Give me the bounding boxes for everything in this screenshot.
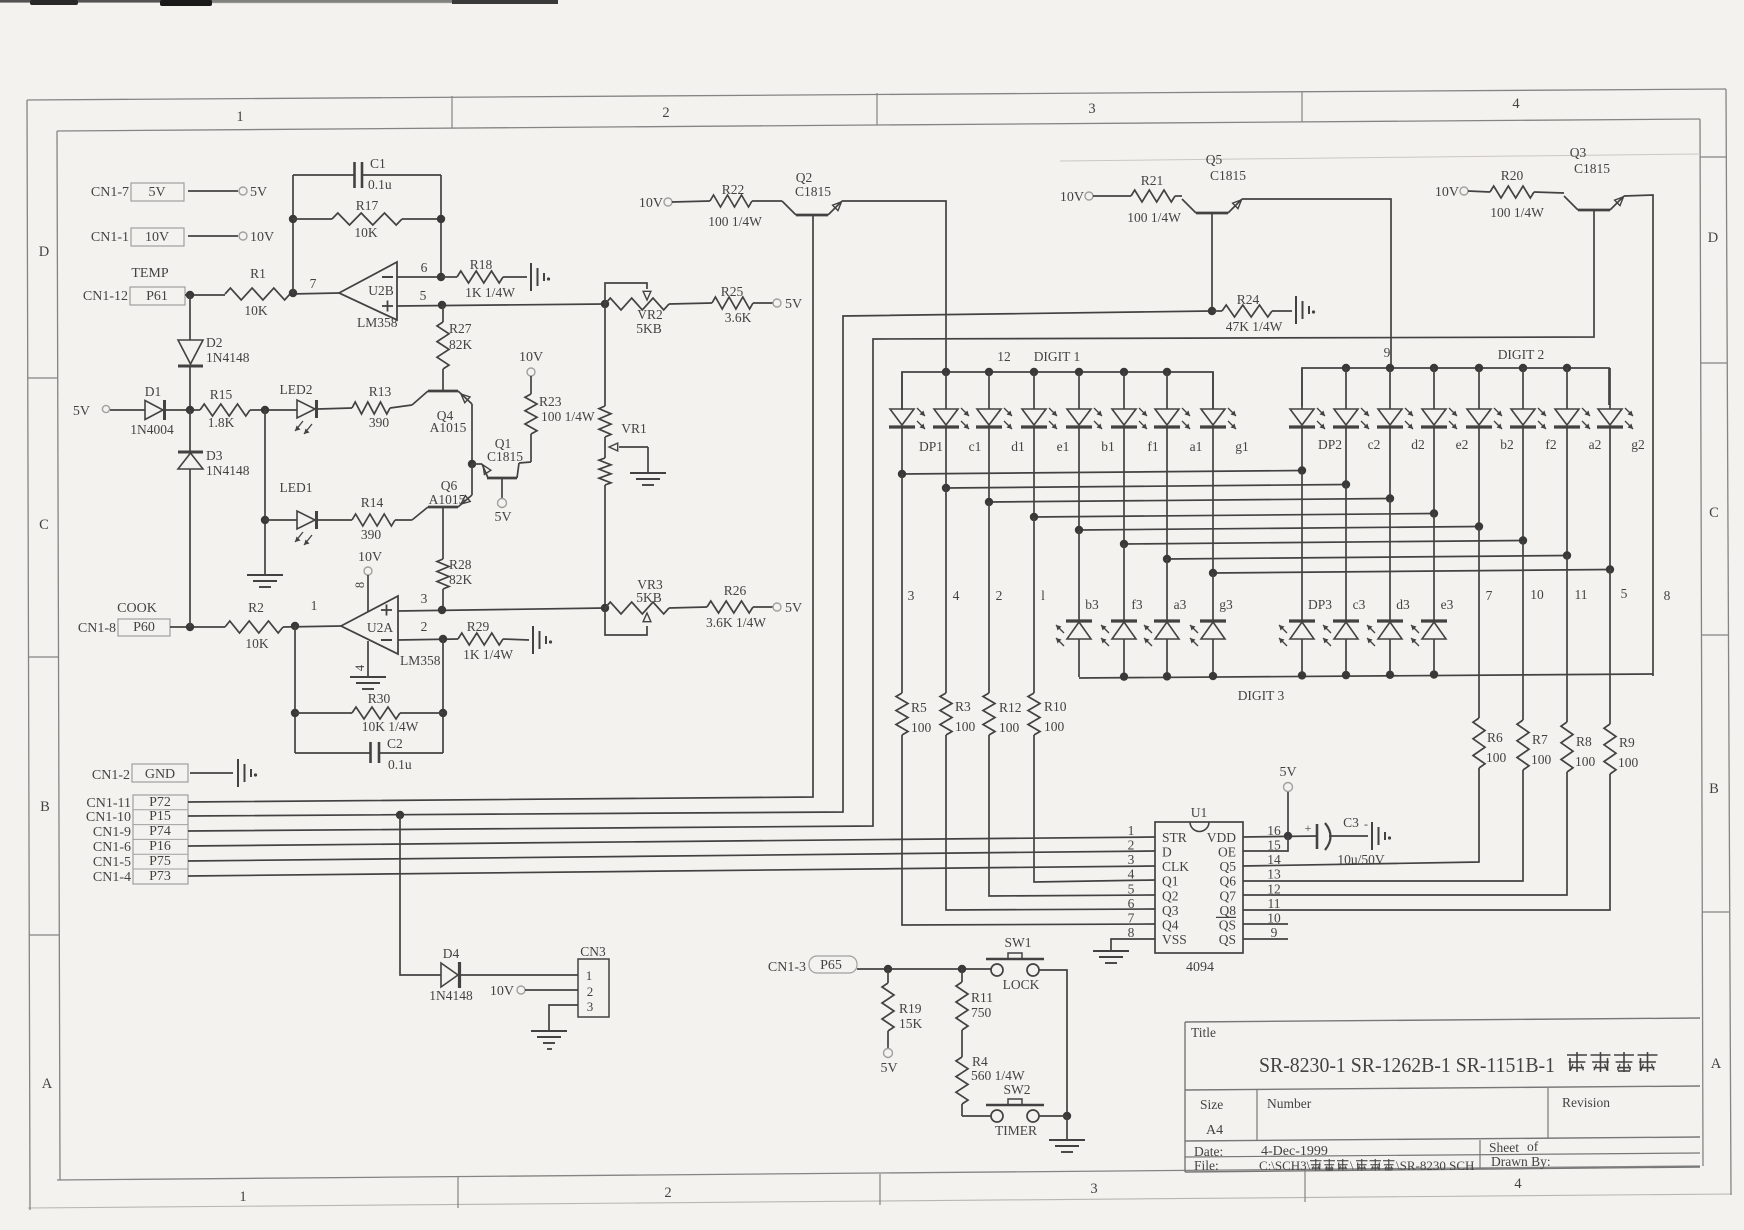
svg-text:DIGIT 1: DIGIT 1 xyxy=(1034,349,1081,364)
resistor R7 100 xyxy=(1517,720,1552,770)
svg-text:D3: D3 xyxy=(206,448,223,463)
svg-text:A1015: A1015 xyxy=(430,420,467,435)
svg-text:1.8K: 1.8K xyxy=(208,415,235,430)
svg-text:R6: R6 xyxy=(1487,730,1503,745)
wire U2B pin5 xyxy=(397,288,605,309)
svg-text:15K: 15K xyxy=(899,1016,923,1031)
resistor R25 3.6K xyxy=(669,284,773,325)
svg-text:5: 5 xyxy=(1621,586,1628,601)
svg-text:of: of xyxy=(1527,1139,1539,1154)
node TEMP / CN1-12 P61 xyxy=(83,266,185,305)
svg-text:100 1/4W: 100 1/4W xyxy=(708,214,762,229)
svg-text:2: 2 xyxy=(664,1185,671,1201)
wire c3 column from bus2 xyxy=(1345,485,1347,621)
svg-text:STR: STR xyxy=(1162,830,1187,845)
svg-text:COOK: COOK xyxy=(117,601,157,616)
LED a2 xyxy=(1554,368,1601,452)
svg-text:LOCK: LOCK xyxy=(1003,977,1040,992)
LED a3 xyxy=(1144,597,1187,677)
svg-text:A: A xyxy=(42,1076,53,1092)
title block xyxy=(1185,1018,1700,1173)
svg-text:Q7: Q7 xyxy=(1220,888,1237,903)
svg-text:Q6: Q6 xyxy=(441,478,458,493)
svg-text:10V: 10V xyxy=(358,550,382,565)
ground for SW2 xyxy=(1049,1116,1085,1152)
wire feedback left vertical xyxy=(289,175,297,293)
diode D1 1N4004 xyxy=(130,384,200,437)
svg-text:b2: b2 xyxy=(1500,437,1514,452)
transistor Q1 C1815 xyxy=(472,434,531,525)
svg-text:100: 100 xyxy=(1486,750,1507,765)
capacitor C2 0.1u xyxy=(295,736,443,772)
svg-text:DP1: DP1 xyxy=(919,439,943,454)
wire P75 to U1 D xyxy=(188,851,1155,861)
svg-text:R9: R9 xyxy=(1619,735,1635,750)
svg-text:10K 1/4W: 10K 1/4W xyxy=(362,719,419,734)
svg-text:5V: 5V xyxy=(785,297,802,312)
svg-text:10: 10 xyxy=(1530,587,1544,602)
connector pin CN1-3 P65 xyxy=(768,956,991,975)
wire U1 QS stub xyxy=(1243,938,1288,940)
svg-text:CN3: CN3 xyxy=(580,944,606,959)
ground for R29 xyxy=(533,626,552,654)
svg-text:D: D xyxy=(1708,230,1718,246)
wire e1 column to R10 xyxy=(1033,517,1035,693)
svg-text:10V: 10V xyxy=(519,350,543,365)
svg-text:DIGIT 2: DIGIT 2 xyxy=(1498,347,1545,362)
svg-text:Revision: Revision xyxy=(1562,1095,1610,1110)
svg-text:c1: c1 xyxy=(969,439,982,454)
svg-text:2: 2 xyxy=(1128,838,1135,853)
svg-text:1K 1/4W: 1K 1/4W xyxy=(463,647,513,662)
connector CN3 xyxy=(578,944,609,1017)
wire R12 to U1 Q2 xyxy=(989,735,1155,896)
wire g2 column to R9 xyxy=(1609,569,1611,724)
svg-text:Title: Title xyxy=(1191,1025,1216,1040)
svg-text:100: 100 xyxy=(1531,752,1552,767)
svg-text:a1: a1 xyxy=(1190,439,1203,454)
svg-text:CN1-1: CN1-1 xyxy=(91,230,129,245)
svg-text:R28: R28 xyxy=(449,557,472,572)
diode D4 1N4148 xyxy=(400,815,578,1003)
wire U1 OE to VDD node xyxy=(1243,836,1288,851)
svg-text:d3: d3 xyxy=(1396,597,1410,612)
resistor R8 100 xyxy=(1561,722,1596,772)
ground for CN3 xyxy=(531,1031,567,1049)
LED b3 xyxy=(1056,597,1099,677)
svg-text:4-Dec-1999: 4-Dec-1999 xyxy=(1261,1144,1328,1159)
svg-text:3: 3 xyxy=(421,591,428,606)
wire U2A pin3 output xyxy=(398,591,605,614)
svg-text:R2: R2 xyxy=(248,600,264,615)
svg-text:P65: P65 xyxy=(820,958,842,973)
svg-text:0.1u: 0.1u xyxy=(368,177,392,192)
resistor R28 82K xyxy=(437,557,473,610)
svg-text:10V: 10V xyxy=(1435,185,1459,200)
svg-text:R14: R14 xyxy=(361,495,384,510)
potentiometer VR3 5KB xyxy=(601,577,669,635)
svg-text:5V: 5V xyxy=(880,1061,897,1076)
svg-text:2: 2 xyxy=(662,105,669,121)
svg-text:7: 7 xyxy=(1486,588,1493,603)
wire U1 QSbar stub xyxy=(1243,923,1288,925)
svg-text:Q1: Q1 xyxy=(1162,874,1179,889)
LED1 xyxy=(261,410,317,575)
terminal 10V for R21 xyxy=(1060,190,1131,205)
transistor Q3 C1815 xyxy=(1564,145,1624,210)
resistor R11 750 xyxy=(956,969,993,1057)
svg-text:560 1/4W: 560 1/4W xyxy=(971,1068,1025,1083)
svg-text:5V: 5V xyxy=(785,601,802,616)
svg-text:B: B xyxy=(40,799,50,815)
svg-text:Sheet: Sheet xyxy=(1489,1140,1519,1155)
svg-text:5KB: 5KB xyxy=(636,321,662,336)
svg-text:Q2: Q2 xyxy=(1162,888,1179,903)
op-amp U2B LM358 xyxy=(339,262,398,330)
wire feedback right vertical xyxy=(437,175,445,277)
resistor R13 390 xyxy=(318,384,412,430)
svg-text:R15: R15 xyxy=(210,387,233,402)
wire P15 to Q5 base line xyxy=(188,311,1212,819)
svg-text:C1815: C1815 xyxy=(795,184,831,199)
wire a3 column from bus7 xyxy=(1166,559,1168,621)
wire a2 column to R8 xyxy=(1566,555,1568,722)
svg-text:10V: 10V xyxy=(490,984,514,999)
svg-text:C1815: C1815 xyxy=(1574,161,1610,176)
LED DP3 xyxy=(1279,597,1332,677)
svg-text:100: 100 xyxy=(1575,754,1596,769)
LED a1 xyxy=(1154,372,1202,454)
svg-text:13: 13 xyxy=(1267,867,1281,882)
resistor R6 100 xyxy=(1473,718,1507,768)
svg-text:TEMP: TEMP xyxy=(131,266,169,281)
svg-text:f3: f3 xyxy=(1131,597,1142,612)
svg-text:7: 7 xyxy=(310,276,317,291)
resistor R21 100 1/4W xyxy=(1127,173,1182,225)
svg-text:R13: R13 xyxy=(369,384,392,399)
svg-text:1N4148: 1N4148 xyxy=(206,350,250,365)
resistor R17 10K xyxy=(293,198,441,240)
wire R6 to U1 Q5 xyxy=(1243,768,1479,866)
svg-text:C2: C2 xyxy=(387,736,403,751)
transistor Q2 C1815 xyxy=(782,170,842,215)
svg-text:3: 3 xyxy=(587,999,594,1014)
wire e3 column from bus4 xyxy=(1433,513,1435,621)
svg-text:P16: P16 xyxy=(149,839,171,854)
svg-text:CN1-4: CN1-4 xyxy=(93,870,131,885)
potentiometer VR2 5KB xyxy=(601,283,669,336)
wire Q5 emitter to DIGIT2 common xyxy=(1242,199,1391,368)
svg-text:R8: R8 xyxy=(1576,734,1592,749)
svg-text:CN1-5: CN1-5 xyxy=(93,855,131,870)
svg-text:Q5: Q5 xyxy=(1220,859,1237,874)
svg-text:C1815: C1815 xyxy=(487,449,523,464)
LED f2 xyxy=(1510,368,1557,452)
wire f3 column from bus6 xyxy=(1123,544,1125,621)
svg-text:-: - xyxy=(1364,817,1368,831)
node Q4/Q6/Q1 base junction xyxy=(468,460,476,468)
wire segment bus 2 xyxy=(942,427,1350,492)
svg-text:CN1-10: CN1-10 xyxy=(86,810,131,825)
wire R1 to U2B pin7 xyxy=(289,276,339,297)
resistor R15 1.8K xyxy=(200,387,297,430)
diode D3 1N4148 xyxy=(178,448,250,478)
svg-text:1: 1 xyxy=(239,1189,246,1205)
svg-text:5: 5 xyxy=(1128,881,1135,896)
file path text xyxy=(1259,1158,1474,1173)
svg-text:f2: f2 xyxy=(1545,437,1556,452)
capacitor C1 0.1u xyxy=(293,156,441,192)
title text SR-8230-1 SR-1262B-1 SR-1151B-1 xyxy=(1259,1052,1658,1077)
DIGIT 2 common rail (pin 9) xyxy=(1302,345,1609,406)
svg-text:DP2: DP2 xyxy=(1318,437,1342,452)
wire segment bus 6 xyxy=(1120,427,1527,548)
wire segment bus 3 xyxy=(985,427,1394,506)
svg-text:5V: 5V xyxy=(73,404,90,419)
svg-text:CN1-9: CN1-9 xyxy=(93,825,131,840)
svg-text:C3: C3 xyxy=(1343,815,1359,830)
svg-text:D2: D2 xyxy=(206,335,223,350)
DIGIT 3 common rail (pin 8) xyxy=(1079,670,1653,703)
LED b1 xyxy=(1066,372,1115,454)
svg-text:1: 1 xyxy=(311,598,318,613)
svg-text:C1815: C1815 xyxy=(1210,168,1246,183)
svg-text:5KB: 5KB xyxy=(636,590,662,605)
wire c1 column to R3 xyxy=(945,488,947,693)
svg-text:47K 1/4W: 47K 1/4W xyxy=(1226,319,1283,334)
svg-text:3: 3 xyxy=(908,588,915,603)
wire f2 column to R7 xyxy=(1522,541,1524,720)
LED b2 xyxy=(1466,368,1514,452)
svg-text:P74: P74 xyxy=(149,824,171,839)
resistor R23 100 1/4W xyxy=(525,394,595,434)
svg-text:10V: 10V xyxy=(145,230,169,245)
wire P72 to Q2 base xyxy=(188,215,813,802)
terminal 5V for R25 xyxy=(773,297,802,312)
svg-text:Q6: Q6 xyxy=(1220,874,1237,889)
LED c3 xyxy=(1323,597,1366,677)
svg-text:R22: R22 xyxy=(722,182,745,197)
wire Q2 emitter to DIGIT1 common xyxy=(842,201,946,372)
svg-text:6: 6 xyxy=(1128,896,1135,911)
LED e1 xyxy=(1021,372,1069,454)
svg-text:1N4148: 1N4148 xyxy=(206,463,250,478)
svg-text:R27: R27 xyxy=(449,321,472,336)
svg-text:2: 2 xyxy=(421,619,428,634)
svg-text:10u/50V: 10u/50V xyxy=(1337,852,1385,867)
svg-text:d2: d2 xyxy=(1411,437,1425,452)
svg-text:100: 100 xyxy=(1618,755,1639,770)
ground for CN1-2 xyxy=(238,759,257,787)
svg-text:c2: c2 xyxy=(1368,437,1381,452)
resistor R10 100 xyxy=(1028,693,1067,735)
ground for R18 xyxy=(531,263,550,291)
svg-text:1: 1 xyxy=(236,109,243,125)
svg-text:3: 3 xyxy=(1088,101,1095,117)
LED c1 xyxy=(933,372,981,454)
svg-text:SR-8230-1 SR-1262B-1 SR-1151B-: SR-8230-1 SR-1262B-1 SR-1151B-1 xyxy=(1259,1053,1555,1077)
svg-text:2: 2 xyxy=(587,984,594,999)
svg-text:12: 12 xyxy=(1267,881,1281,896)
LED d3 xyxy=(1367,597,1410,677)
op-amp U2A LM358 xyxy=(341,596,441,668)
svg-text:0.1u: 0.1u xyxy=(388,757,412,772)
wire P74 to Q3 base line xyxy=(188,210,1594,831)
svg-text:Q8: Q8 xyxy=(1220,903,1237,918)
svg-text:CN1-3: CN1-3 xyxy=(768,960,806,975)
connector pin CN1-7 5V xyxy=(91,183,267,201)
switch SW2 TIMER xyxy=(986,1082,1044,1138)
display pin labels 7 10 11 5 8 xyxy=(1486,586,1671,603)
LED g1 xyxy=(1200,372,1249,454)
diode D2 1N4148 xyxy=(178,295,250,410)
connector pin CN1-1 10V xyxy=(91,228,274,246)
svg-text:c3: c3 xyxy=(1353,597,1366,612)
terminal 5V for U1 VDD xyxy=(1279,765,1296,836)
svg-text:11: 11 xyxy=(1575,587,1588,602)
wire segment bus 7 xyxy=(1163,427,1571,563)
connector CN1 signal block xyxy=(86,795,188,885)
svg-text:R25: R25 xyxy=(721,284,744,299)
svg-text:390: 390 xyxy=(369,415,390,430)
svg-text:R21: R21 xyxy=(1141,173,1164,188)
svg-text:CN1-7: CN1-7 xyxy=(91,185,129,200)
svg-text:3: 3 xyxy=(1090,1181,1097,1197)
svg-text:10V: 10V xyxy=(1060,190,1084,205)
LED DP1 xyxy=(889,372,943,454)
resistor R14 390 xyxy=(318,495,412,542)
LED g2 xyxy=(1597,368,1645,452)
svg-text:11: 11 xyxy=(1268,896,1281,911)
svg-text:390: 390 xyxy=(361,527,382,542)
svg-text:VR2: VR2 xyxy=(637,307,663,322)
connector pin CN1-2 GND xyxy=(92,764,233,783)
svg-text:10V: 10V xyxy=(250,230,274,245)
svg-text:P73: P73 xyxy=(149,869,171,884)
LED e2 xyxy=(1421,368,1468,452)
svg-text:Date:: Date: xyxy=(1194,1144,1223,1159)
svg-text:100 1/4W: 100 1/4W xyxy=(1490,205,1544,220)
terminal 10V for CN3 pin2 xyxy=(490,984,578,999)
svg-text:DIGIT 3: DIGIT 3 xyxy=(1238,688,1285,703)
svg-text:R24: R24 xyxy=(1237,292,1260,307)
svg-text:U2B: U2B xyxy=(368,283,394,298)
svg-text:R30: R30 xyxy=(368,691,391,706)
svg-text:3.6K 1/4W: 3.6K 1/4W xyxy=(706,615,766,630)
svg-text:Q3: Q3 xyxy=(1162,903,1179,918)
svg-text:b1: b1 xyxy=(1101,439,1115,454)
svg-text:f1: f1 xyxy=(1147,439,1158,454)
svg-text:SW2: SW2 xyxy=(1004,1082,1031,1097)
node 5V junction D1/D2 xyxy=(186,406,194,414)
LED DP2 xyxy=(1289,368,1342,452)
svg-text:C:\SCH3\: C:\SCH3\ xyxy=(1259,1158,1311,1173)
svg-text:Q5: Q5 xyxy=(1206,152,1223,167)
svg-text:D: D xyxy=(1162,845,1172,860)
svg-text:TIMER: TIMER xyxy=(995,1123,1037,1138)
svg-text:P72: P72 xyxy=(149,795,171,810)
transistor Q5 C1815 xyxy=(1182,152,1246,311)
svg-text:\: \ xyxy=(1350,1158,1354,1173)
svg-text:A1015: A1015 xyxy=(429,492,466,507)
resistor R30 10K 1/4W xyxy=(291,626,447,753)
svg-text:R3: R3 xyxy=(955,699,971,714)
svg-text:R29: R29 xyxy=(467,619,490,634)
svg-text:1K 1/4W: 1K 1/4W xyxy=(465,285,515,300)
svg-text:100: 100 xyxy=(999,720,1020,735)
svg-text:l: l xyxy=(1041,588,1045,603)
svg-text:GND: GND xyxy=(145,767,175,782)
svg-text:1: 1 xyxy=(586,968,593,983)
svg-text:R7: R7 xyxy=(1532,732,1548,747)
resistor R29 1K 1/4W xyxy=(458,619,529,662)
resistor R27 82K xyxy=(437,305,473,391)
LED d1 xyxy=(976,372,1025,454)
resistor R4 560 1/4W xyxy=(956,1054,1025,1116)
svg-text:D: D xyxy=(39,244,49,260)
svg-text:+: + xyxy=(1305,821,1312,835)
svg-text:P60: P60 xyxy=(133,620,155,635)
svg-text:e2: e2 xyxy=(1456,437,1469,452)
svg-text:e1: e1 xyxy=(1057,439,1070,454)
svg-text:8: 8 xyxy=(1128,925,1135,940)
svg-text:12: 12 xyxy=(997,349,1011,364)
LED2 xyxy=(280,382,317,434)
svg-text:100 1/4W: 100 1/4W xyxy=(1127,210,1181,225)
wire CN3 pin3 to ground xyxy=(549,1005,578,1031)
LED g3 xyxy=(1190,597,1233,677)
svg-text:14: 14 xyxy=(1267,852,1281,867)
svg-text:C1: C1 xyxy=(370,156,386,171)
LED d2 xyxy=(1377,368,1425,452)
svg-text:4094: 4094 xyxy=(1186,960,1214,975)
svg-text:3: 3 xyxy=(1128,852,1135,867)
wire P61 to R1 xyxy=(185,291,225,299)
svg-text:5V: 5V xyxy=(1279,765,1296,780)
svg-text:Q3: Q3 xyxy=(1570,145,1587,160)
svg-text:VR1: VR1 xyxy=(621,421,647,436)
wire P60 to R2 xyxy=(170,410,225,631)
svg-text:U1: U1 xyxy=(1191,805,1208,820)
svg-text:g2: g2 xyxy=(1631,437,1645,452)
svg-text:Q4: Q4 xyxy=(1162,917,1179,932)
svg-text:LM358: LM358 xyxy=(357,315,398,330)
svg-text:R17: R17 xyxy=(356,198,379,213)
transistor Q4 A1015 xyxy=(412,391,472,464)
svg-text:10K: 10K xyxy=(354,225,378,240)
svg-text:8: 8 xyxy=(1664,588,1671,603)
svg-text:5V: 5V xyxy=(148,185,165,200)
svg-text:82K: 82K xyxy=(449,337,473,352)
wire U2B pin6 xyxy=(397,260,445,281)
ground for C3 xyxy=(1372,822,1391,850)
U2A pin8 10V supply xyxy=(353,550,382,612)
terminal 5V left xyxy=(73,404,145,419)
svg-text:A4: A4 xyxy=(1206,1123,1223,1138)
svg-text:P75: P75 xyxy=(149,854,171,869)
wire DP3 column from bus1 xyxy=(1301,471,1303,621)
svg-text:CLK: CLK xyxy=(1162,859,1189,874)
svg-text:5V: 5V xyxy=(250,185,267,200)
svg-text:VDD: VDD xyxy=(1207,830,1236,845)
wire R8 to U1 Q7 xyxy=(1243,772,1567,895)
svg-text:d1: d1 xyxy=(1011,439,1025,454)
svg-text:R18: R18 xyxy=(470,257,493,272)
node COOK / CN1-8 P60 xyxy=(78,601,170,636)
scan artifact: top edge black band xyxy=(0,0,558,6)
wire R7 to U1 Q6 xyxy=(1243,770,1523,881)
svg-text:a2: a2 xyxy=(1589,437,1602,452)
